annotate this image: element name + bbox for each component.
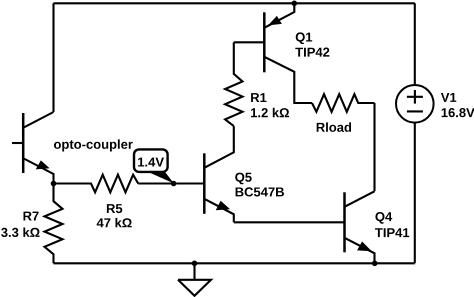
wire top rail: [54, 2, 415, 4]
label R5: [107, 204, 122, 213]
label 1.2 kOhm: [251, 108, 289, 117]
callout box 1.4V: [134, 149, 168, 172]
label TIP42: [295, 48, 329, 57]
Q4 emitter lead: [345, 238, 375, 263]
label R1: [251, 93, 266, 102]
transistor Q4 base bar: [343, 192, 346, 252]
label TIP41: [375, 228, 409, 237]
wire V1 to bottom rail: [414, 123, 416, 263]
opto-coupler emitter arrow: [37, 161, 49, 169]
V1 plus sign: [407, 90, 423, 104]
wire Rload to Q4 collector: [373, 103, 375, 191]
Q4 collector lead: [345, 191, 375, 207]
Q5 emitter arrow: [217, 202, 229, 210]
node junction dot Q4 emitter on bottom rail: [372, 261, 378, 267]
node junction dot opto emitter / R7 / R5: [51, 181, 57, 187]
label BC547B: [236, 187, 284, 196]
label Q5: [235, 173, 252, 185]
wire bottom rail: [54, 262, 415, 264]
V1 minus sign: [407, 110, 423, 112]
label Q1: [296, 32, 313, 44]
label R7: [24, 212, 39, 221]
label 47 kOhm: [97, 218, 132, 227]
opto-coupler collector lead: [24, 112, 54, 128]
label V1: [441, 93, 456, 102]
Q4 emitter arrow: [358, 242, 371, 250]
label 3.3 kOhm: [1, 228, 40, 238]
callout pointer for 1.4V: [147, 171, 174, 183]
Q1 collector lead: [264, 57, 312, 103]
wire left vertical from top rail: [52, 3, 54, 112]
ground: [178, 263, 211, 296]
label Rload: [317, 122, 351, 131]
node junction dot top rail / Q1 emitter: [292, 1, 298, 7]
transistor opto-coupler base bar: [22, 113, 25, 173]
node junction dot 1.4V probe point: [171, 181, 177, 187]
transistor Q1 base bar: [263, 12, 266, 72]
wire right vertical top rail to V1: [414, 3, 416, 85]
resistor R7: [45, 184, 63, 264]
label opto-coupler: [54, 139, 133, 151]
resistor R1: [225, 42, 242, 126]
opto-coupler emitter lead: [24, 159, 54, 184]
Q1 emitter arrow PNP points to bar: [269, 17, 281, 25]
opto-coupler base lead: [12, 142, 23, 144]
Q5 collector lead: [204, 126, 234, 168]
label 1.4V: [138, 158, 164, 167]
Q1 base lead: [234, 41, 264, 43]
label 16.8V: [442, 108, 474, 117]
label Q4: [375, 212, 392, 224]
wire R5 to Q5 base: [138, 182, 204, 184]
Q4 base lead from Q5 emitter: [234, 221, 345, 223]
node junction dot ground tap: [192, 261, 198, 267]
Q5 emitter lead: [204, 199, 234, 223]
resistor Rload: [312, 94, 375, 112]
transistor Q5 base bar: [203, 153, 206, 214]
voltage source V1: [396, 85, 434, 123]
Q1 emitter lead: [264, 3, 294, 28]
resistor R5: [54, 175, 139, 193]
